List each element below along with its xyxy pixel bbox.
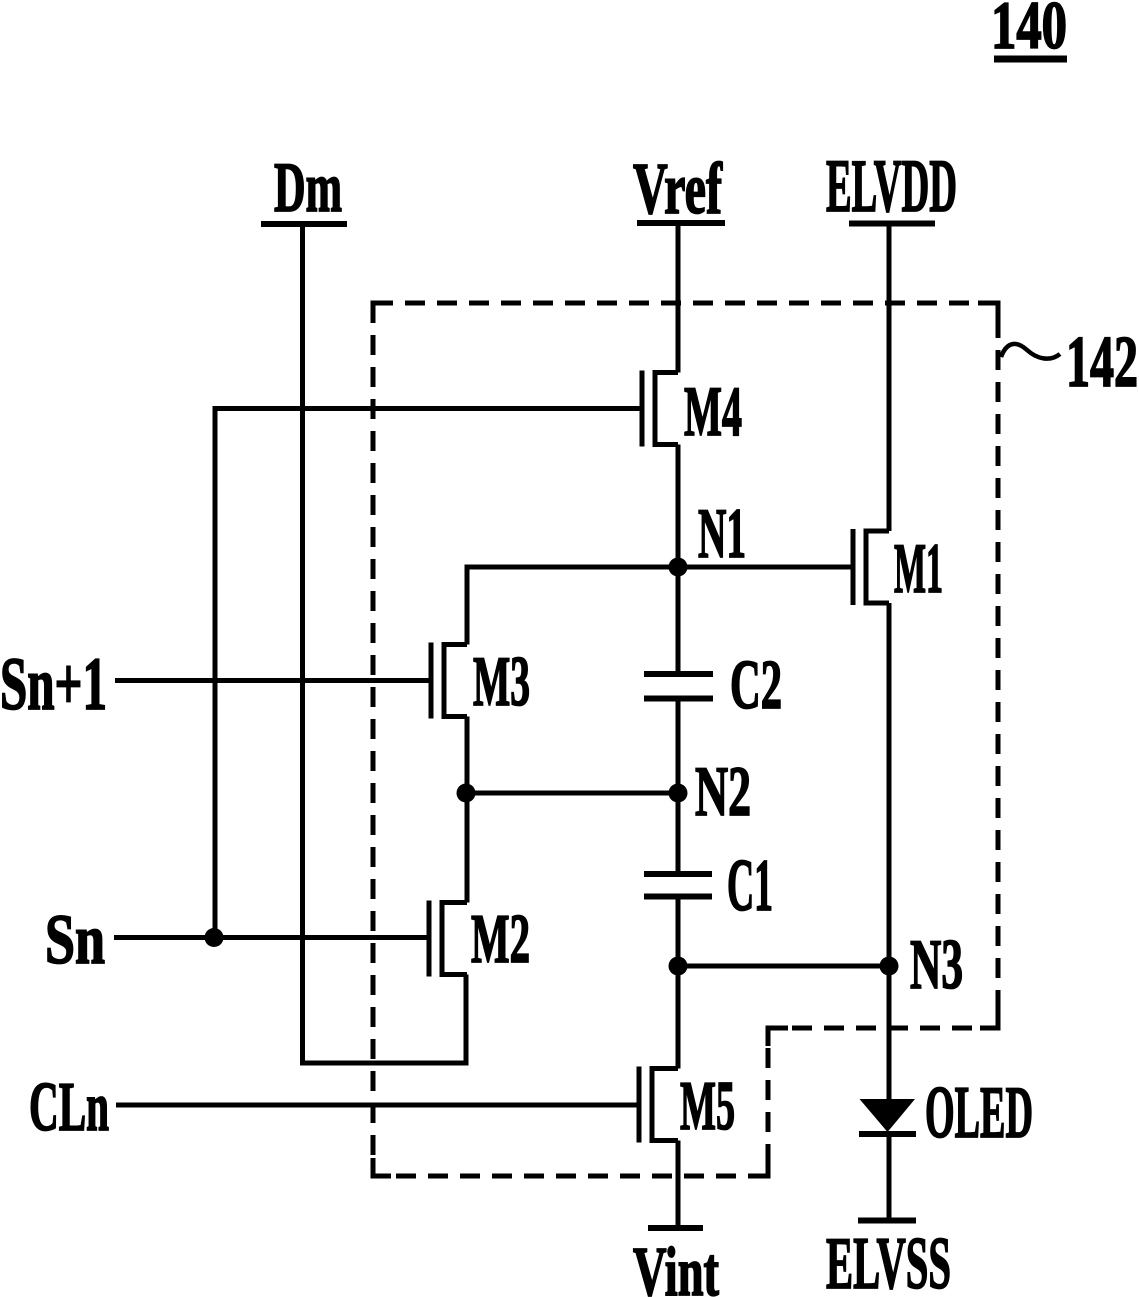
svg-text:ELVSS: ELVSS <box>826 1223 951 1297</box>
svg-text:Vref: Vref <box>633 148 723 229</box>
svg-text:C1: C1 <box>727 845 773 927</box>
svg-text:M3: M3 <box>473 643 530 721</box>
svg-text:M2: M2 <box>471 901 530 978</box>
svg-text:M1: M1 <box>894 530 943 608</box>
svg-text:C2: C2 <box>730 647 782 724</box>
svg-text:N2: N2 <box>695 753 751 831</box>
svg-text:N1: N1 <box>698 495 746 573</box>
svg-text:Vint: Vint <box>633 1234 719 1297</box>
svg-text:OLED: OLED <box>925 1072 1033 1154</box>
svg-text:Sn: Sn <box>45 901 105 979</box>
svg-text:M5: M5 <box>680 1068 735 1145</box>
svg-text:ELVDD: ELVDD <box>826 145 957 228</box>
svg-text:142: 142 <box>1066 321 1138 402</box>
svg-text:CLn: CLn <box>29 1069 109 1146</box>
svg-text:M4: M4 <box>684 373 742 451</box>
svg-text:Dm: Dm <box>274 149 342 227</box>
svg-text:Sn+1: Sn+1 <box>0 643 107 726</box>
svg-text:140: 140 <box>991 0 1067 63</box>
svg-text:N3: N3 <box>910 926 963 1004</box>
